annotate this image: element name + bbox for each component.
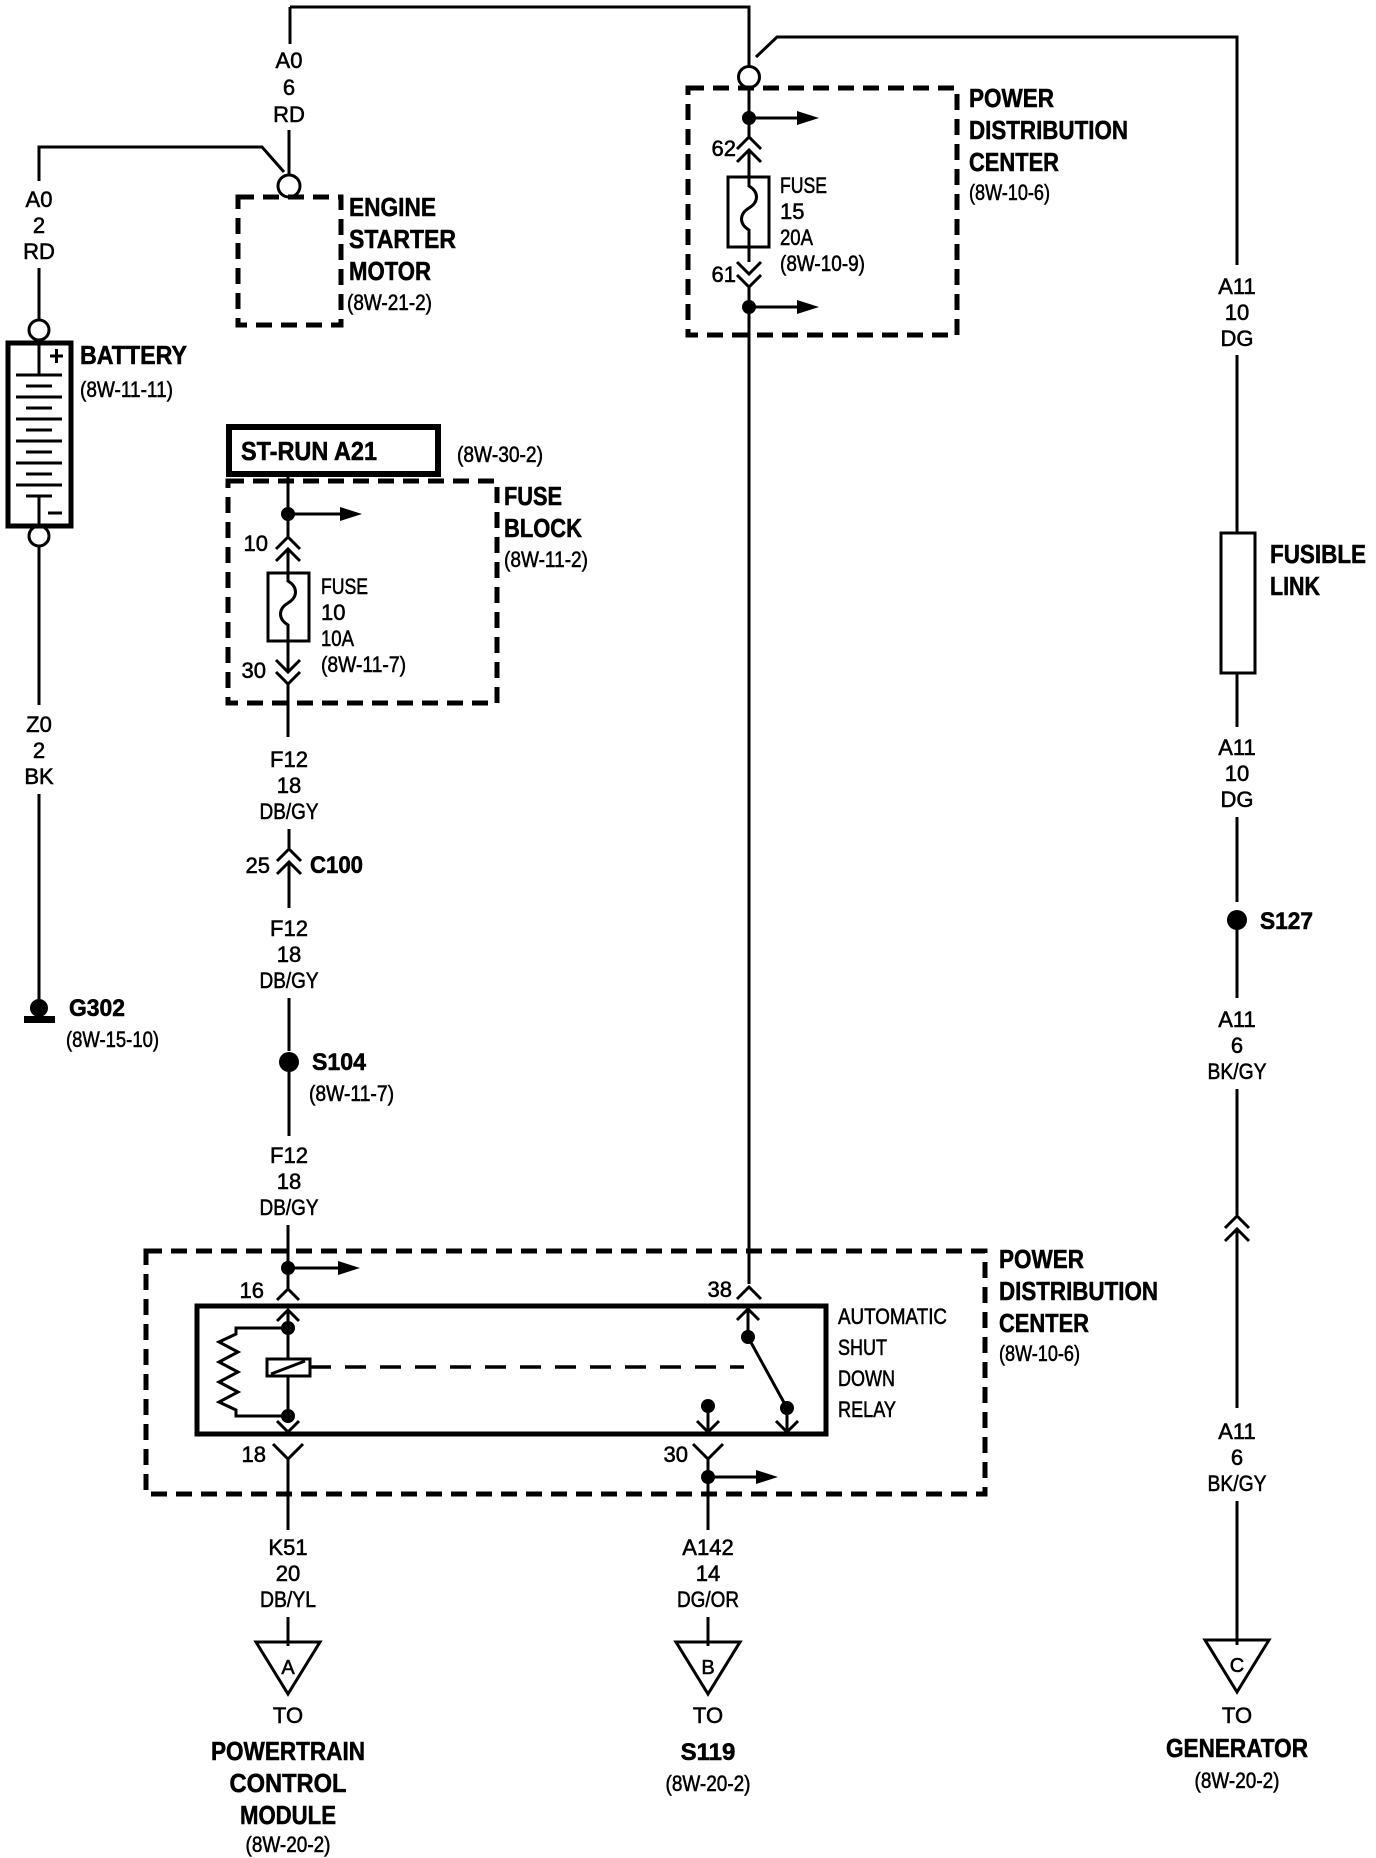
svg-text:FUSE: FUSE: [504, 481, 562, 511]
node F12 18 DB/GY wire label (middle): [260, 916, 319, 993]
svg-text:S127: S127: [1260, 908, 1313, 935]
svg-text:BK/GY: BK/GY: [1208, 1059, 1267, 1084]
svg-text:38: 38: [708, 1277, 732, 1302]
svg-text:(8W-10-6): (8W-10-6): [969, 180, 1050, 205]
node junction dot with arrow (PDC pin 62 feed): [742, 111, 819, 125]
svg-text:ST-RUN A21: ST-RUN A21: [241, 436, 377, 466]
svg-text:20: 20: [276, 1561, 300, 1586]
svg-text:C: C: [1230, 1655, 1244, 1677]
fusible link: [1221, 533, 1366, 673]
power distribution center box bottom (8W-10-6): [146, 1244, 1158, 1494]
svg-text:6: 6: [283, 75, 295, 100]
svg-text:30: 30: [242, 658, 266, 683]
fuse 15 20A (8W-10-9): [728, 173, 865, 276]
svg-text:20A: 20A: [780, 225, 813, 250]
wire to splice S127: [1236, 817, 1239, 902]
svg-text:10A: 10A: [321, 626, 354, 651]
svg-text:ENGINE: ENGINE: [349, 192, 436, 222]
svg-text:A11: A11: [1218, 1007, 1256, 1032]
node A11 6 BK/GY wire label (lower): [1208, 1419, 1267, 1496]
svg-text:(8W-20-2): (8W-20-2): [666, 1771, 751, 1796]
node A11 6 BK/GY wire label (upper): [1208, 1007, 1267, 1084]
wire below S104: [288, 1072, 291, 1136]
wire to C100: [288, 829, 291, 848]
svg-text:10: 10: [244, 531, 268, 556]
wire from A11 label to fusible link: [1236, 355, 1239, 533]
node junction dot with arrow (fuse block feed): [281, 507, 362, 521]
svg-text:FUSE: FUSE: [321, 574, 368, 599]
wire below inline connector: [1236, 1229, 1239, 1408]
svg-text:2: 2: [33, 213, 45, 238]
pin 18 connector (ASD relay): [242, 1421, 303, 1530]
node junction dot with arrow (pin 30 out): [701, 1470, 778, 1484]
svg-text:CENTER: CENTER: [999, 1308, 1089, 1338]
svg-text:RELAY: RELAY: [838, 1397, 896, 1422]
wire top bus from PDC to generator column: [756, 37, 1237, 265]
fuse block box (8W-11-2): [228, 481, 588, 703]
wire from battery negative terminal down: [38, 546, 41, 705]
svg-text:18: 18: [277, 773, 301, 798]
svg-text:61: 61: [712, 262, 736, 287]
svg-text:AUTOMATIC: AUTOMATIC: [838, 1304, 947, 1329]
connector inline (generator circuit): [1225, 1216, 1249, 1241]
svg-text:BK/GY: BK/GY: [1208, 1471, 1267, 1496]
node starter motor terminal circle: [278, 175, 300, 197]
wire into power distribution center (pin 16 feed): [287, 1225, 290, 1262]
wire from A0 2 RD label to battery positive terminal: [38, 268, 41, 320]
ground G302 (8W-15-10): [24, 995, 159, 1052]
svg-text:(8W-15-10): (8W-15-10): [66, 1027, 159, 1052]
svg-text:CONTROL: CONTROL: [230, 1768, 347, 1798]
svg-text:G302: G302: [69, 995, 125, 1022]
svg-text:DG/OR: DG/OR: [677, 1587, 739, 1612]
svg-text:A11: A11: [1218, 1419, 1256, 1444]
svg-text:S119: S119: [681, 1739, 736, 1766]
pin 30 connector (fuse block): [242, 658, 300, 684]
node off-page connector C to generator: [1166, 1640, 1308, 1793]
svg-text:DB/GY: DB/GY: [260, 968, 319, 993]
wire from A0 6 RD label down to starter terminal: [288, 130, 291, 174]
svg-text:Z0: Z0: [26, 712, 52, 737]
svg-text:FUSE: FUSE: [780, 173, 827, 198]
splice S104 (8W-11-7): [279, 1049, 394, 1106]
svg-text:10: 10: [321, 600, 345, 625]
node A142 14 DG/OR wire label: [677, 1535, 739, 1612]
svg-text:18: 18: [242, 1442, 266, 1467]
svg-text:S104: S104: [312, 1049, 367, 1076]
svg-text:C100: C100: [310, 852, 363, 879]
pin 30 contact and connector (ASD relay): [664, 1399, 723, 1530]
wire pin 16 to relay coil: [287, 1310, 290, 1359]
pin 10 connector (fuse block): [244, 531, 300, 561]
relay armature symbol: [267, 1359, 744, 1376]
node coil bottom junction dot: [281, 1409, 295, 1423]
svg-text:F12: F12: [270, 916, 308, 941]
svg-text:BLOCK: BLOCK: [504, 513, 582, 543]
battery BATTERY (8W-11-11): [8, 320, 187, 546]
engine starter motor box (8W-21-2): [238, 192, 456, 325]
svg-text:(8W-30-2): (8W-30-2): [457, 442, 543, 467]
splice S127: [1227, 908, 1313, 935]
node off-page connector A to powertrain control module: [211, 1642, 365, 1857]
svg-text:DB/GY: DB/GY: [260, 1195, 319, 1220]
svg-text:TO: TO: [1222, 1703, 1252, 1728]
svg-text:6: 6: [1231, 1445, 1243, 1470]
wire armature to coil bottom junction: [287, 1376, 290, 1423]
pin 16 connector (ASD relay): [240, 1275, 299, 1321]
power distribution center box top (8W-10-6): [688, 83, 1128, 335]
resistor relay coil: [219, 1328, 288, 1416]
svg-text:(8W-20-2): (8W-20-2): [246, 1832, 331, 1857]
node F12 18 DB/GY wire label (lower): [260, 1143, 319, 1220]
svg-text:A142: A142: [682, 1535, 733, 1560]
wire from ST-RUN A21 into fuse block: [287, 477, 290, 537]
wire pin 61 down: [748, 247, 751, 262]
svg-text:POWER: POWER: [969, 83, 1054, 113]
node A11 10 DG wire label (lower): [1218, 735, 1256, 812]
svg-text:18: 18: [277, 942, 301, 967]
svg-text:STARTER: STARTER: [349, 224, 456, 254]
svg-text:B: B: [701, 1657, 714, 1679]
svg-text:BK: BK: [24, 764, 54, 789]
svg-text:LINK: LINK: [1270, 571, 1320, 601]
svg-text:10: 10: [1225, 761, 1249, 786]
svg-text:16: 16: [240, 1278, 264, 1303]
svg-text:TO: TO: [273, 1703, 303, 1728]
svg-text:(8W-20-2): (8W-20-2): [1195, 1768, 1280, 1793]
wire battery feed branch: [39, 147, 284, 181]
svg-text:DISTRIBUTION: DISTRIBUTION: [999, 1276, 1158, 1306]
svg-text:DB/GY: DB/GY: [260, 799, 319, 824]
svg-text:6: 6: [1231, 1033, 1243, 1058]
svg-text:14: 14: [696, 1561, 720, 1586]
fuse 10 10A (8W-11-7): [268, 573, 406, 677]
svg-text:K51: K51: [268, 1535, 307, 1560]
node PDC feed terminal circle: [739, 67, 760, 88]
svg-text:15: 15: [780, 199, 804, 224]
svg-text:DB/YL: DB/YL: [260, 1587, 316, 1612]
svg-text:MOTOR: MOTOR: [349, 256, 431, 286]
node F12 18 DB/GY wire label (upper): [260, 747, 319, 824]
node junction dot with arrow (pin 16 feed): [281, 1261, 360, 1275]
wire below fusible link: [1236, 673, 1239, 727]
wire from Z0 2 BK label to ground G302: [38, 794, 41, 999]
svg-text:62: 62: [712, 136, 736, 161]
svg-text:A11: A11: [1218, 274, 1256, 299]
svg-text:2: 2: [33, 738, 45, 763]
wire long run from PDC fuse 15 down to ASD relay pin 38: [748, 313, 751, 1284]
wire to off-page connector B: [707, 1617, 710, 1646]
wire below S127: [1236, 930, 1239, 998]
node A11 10 DG wire label (upper): [1218, 274, 1256, 351]
svg-text:RD: RD: [273, 102, 305, 127]
wire top bus from starter feed to PDC: [290, 7, 749, 66]
svg-text:(8W-11-7): (8W-11-7): [309, 1081, 394, 1106]
node off-page connector B to S119: [666, 1642, 751, 1796]
wire fuse block output down: [287, 641, 290, 672]
svg-text:TO: TO: [693, 1703, 723, 1728]
svg-text:CENTER: CENTER: [969, 147, 1059, 177]
svg-text:DG: DG: [1221, 787, 1254, 812]
svg-text:F12: F12: [270, 747, 308, 772]
wire to off-page connector C: [1236, 1501, 1239, 1645]
switch ST-RUN A21 (8W-30-2): [229, 427, 543, 474]
svg-text:SHUT: SHUT: [838, 1335, 887, 1360]
svg-text:F12: F12: [270, 1143, 308, 1168]
svg-text:10: 10: [1225, 300, 1249, 325]
svg-text:A: A: [281, 1657, 295, 1679]
svg-text:A0: A0: [26, 187, 53, 212]
node K51 20 DB/YL wire label: [260, 1535, 316, 1612]
wire from terminal into PDC: [748, 88, 751, 137]
svg-text:DG: DG: [1221, 326, 1254, 351]
node A0 2 RD wire label: [23, 187, 55, 264]
svg-text:POWER: POWER: [999, 1244, 1084, 1274]
node A0 6 RD wire label: [273, 48, 305, 127]
svg-text:POWERTRAIN: POWERTRAIN: [211, 1736, 365, 1766]
svg-text:MODULE: MODULE: [240, 1800, 336, 1830]
svg-text:30: 30: [664, 1442, 688, 1467]
connector C100 pin 25: [246, 849, 363, 879]
switch relay contact blade: [741, 1330, 798, 1432]
relay U1 automatic shut down relay box: [197, 1304, 947, 1434]
svg-text:(8W-11-2): (8W-11-2): [504, 547, 588, 572]
svg-text:(8W-11-7): (8W-11-7): [321, 652, 406, 677]
wire pin 10 to fuse: [287, 549, 290, 573]
wire to inline connector: [1236, 1089, 1239, 1215]
wire to off-page connector A: [287, 1617, 290, 1646]
svg-text:(8W-10-9): (8W-10-9): [780, 251, 865, 276]
pin 38 connector (ASD relay): [708, 1277, 761, 1331]
pin 62 connector (PDC fuse 15): [712, 136, 761, 162]
svg-text:RD: RD: [23, 239, 55, 264]
svg-text:A0: A0: [276, 48, 303, 73]
svg-text:18: 18: [277, 1169, 301, 1194]
node coil top junction dot: [281, 1321, 295, 1335]
svg-text:DOWN: DOWN: [838, 1366, 895, 1391]
svg-text:(8W-11-11): (8W-11-11): [80, 377, 173, 402]
node Z0 2 BK wire label: [24, 712, 54, 789]
svg-text:DISTRIBUTION: DISTRIBUTION: [969, 115, 1128, 145]
pin 61 connector (PDC fuse 15): [712, 262, 761, 287]
svg-text:(8W-21-2): (8W-21-2): [347, 290, 432, 315]
svg-text:FUSIBLE: FUSIBLE: [1270, 539, 1366, 569]
svg-text:GENERATOR: GENERATOR: [1166, 1733, 1308, 1763]
wire to splice S104: [288, 998, 291, 1051]
svg-text:BATTERY: BATTERY: [80, 340, 187, 370]
svg-text:A11: A11: [1218, 735, 1256, 760]
wire below C100: [288, 862, 291, 908]
node junction dot with arrow (PDC pin 61 out): [742, 287, 819, 314]
svg-text:(8W-10-6): (8W-10-6): [999, 1341, 1080, 1366]
wire pin 62 to fuse 15: [748, 150, 751, 177]
svg-text:25: 25: [246, 853, 270, 878]
